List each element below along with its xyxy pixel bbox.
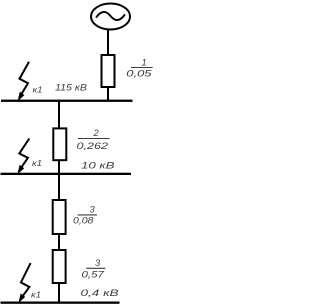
bus node 10 kV	[1, 173, 132, 175]
short-circuit bolt arrow k1 at 0,4 kV bus	[19, 263, 31, 303]
transformer element 3b (rectangle)	[53, 250, 66, 283]
svg-text:0,262: 0,262	[77, 141, 110, 151]
svg-text:1: 1	[142, 57, 147, 67]
svg-text:3: 3	[95, 258, 101, 268]
fraction bar 3b	[86, 267, 105, 269]
wire: bus 115 kV to element 2	[58, 101, 60, 128]
fraction bar 1	[131, 67, 153, 69]
fraction bar 2	[78, 138, 110, 140]
short-circuit bolt arrow k1 at 10 kV bus	[18, 139, 30, 175]
wire: generator to element 1	[107, 29, 109, 55]
system element 1 (rectangle)	[102, 55, 115, 87]
wire: bus 10 kV to element 3a	[58, 175, 60, 200]
transformer element 2 (rectangle)	[53, 128, 66, 160]
svg-text:0,4 кВ: 0,4 кВ	[81, 288, 119, 298]
generator G1 (AC source circle)	[91, 4, 130, 30]
wire: element 3a to element 3b	[58, 234, 60, 250]
svg-text:3: 3	[90, 205, 96, 215]
svg-text:0,05: 0,05	[126, 68, 152, 78]
svg-text:к1: к1	[31, 290, 41, 299]
svg-text:к1: к1	[33, 86, 43, 95]
wire: element 2 to bus 10 kV	[58, 160, 60, 174]
bus node 0,4 kV	[1, 302, 120, 304]
wire: element 3b to bus 0,4 kV	[58, 283, 60, 303]
bus node 115 kV	[1, 100, 133, 102]
svg-text:2: 2	[93, 128, 100, 138]
short-circuit bolt arrow k1 at 115 kV bus	[18, 62, 29, 102]
reactor element 3a (rectangle)	[53, 200, 66, 234]
svg-text:10 кВ: 10 кВ	[81, 161, 115, 171]
sine wave inside generator	[97, 12, 125, 20]
wire: element 1 to bus 115 kV	[107, 87, 109, 101]
svg-text:0,57: 0,57	[82, 269, 105, 279]
svg-text:0,08: 0,08	[73, 216, 94, 226]
svg-text:к1: к1	[32, 159, 42, 168]
svg-text:115 кВ: 115 кВ	[55, 82, 87, 92]
fraction bar 3a	[78, 214, 97, 216]
